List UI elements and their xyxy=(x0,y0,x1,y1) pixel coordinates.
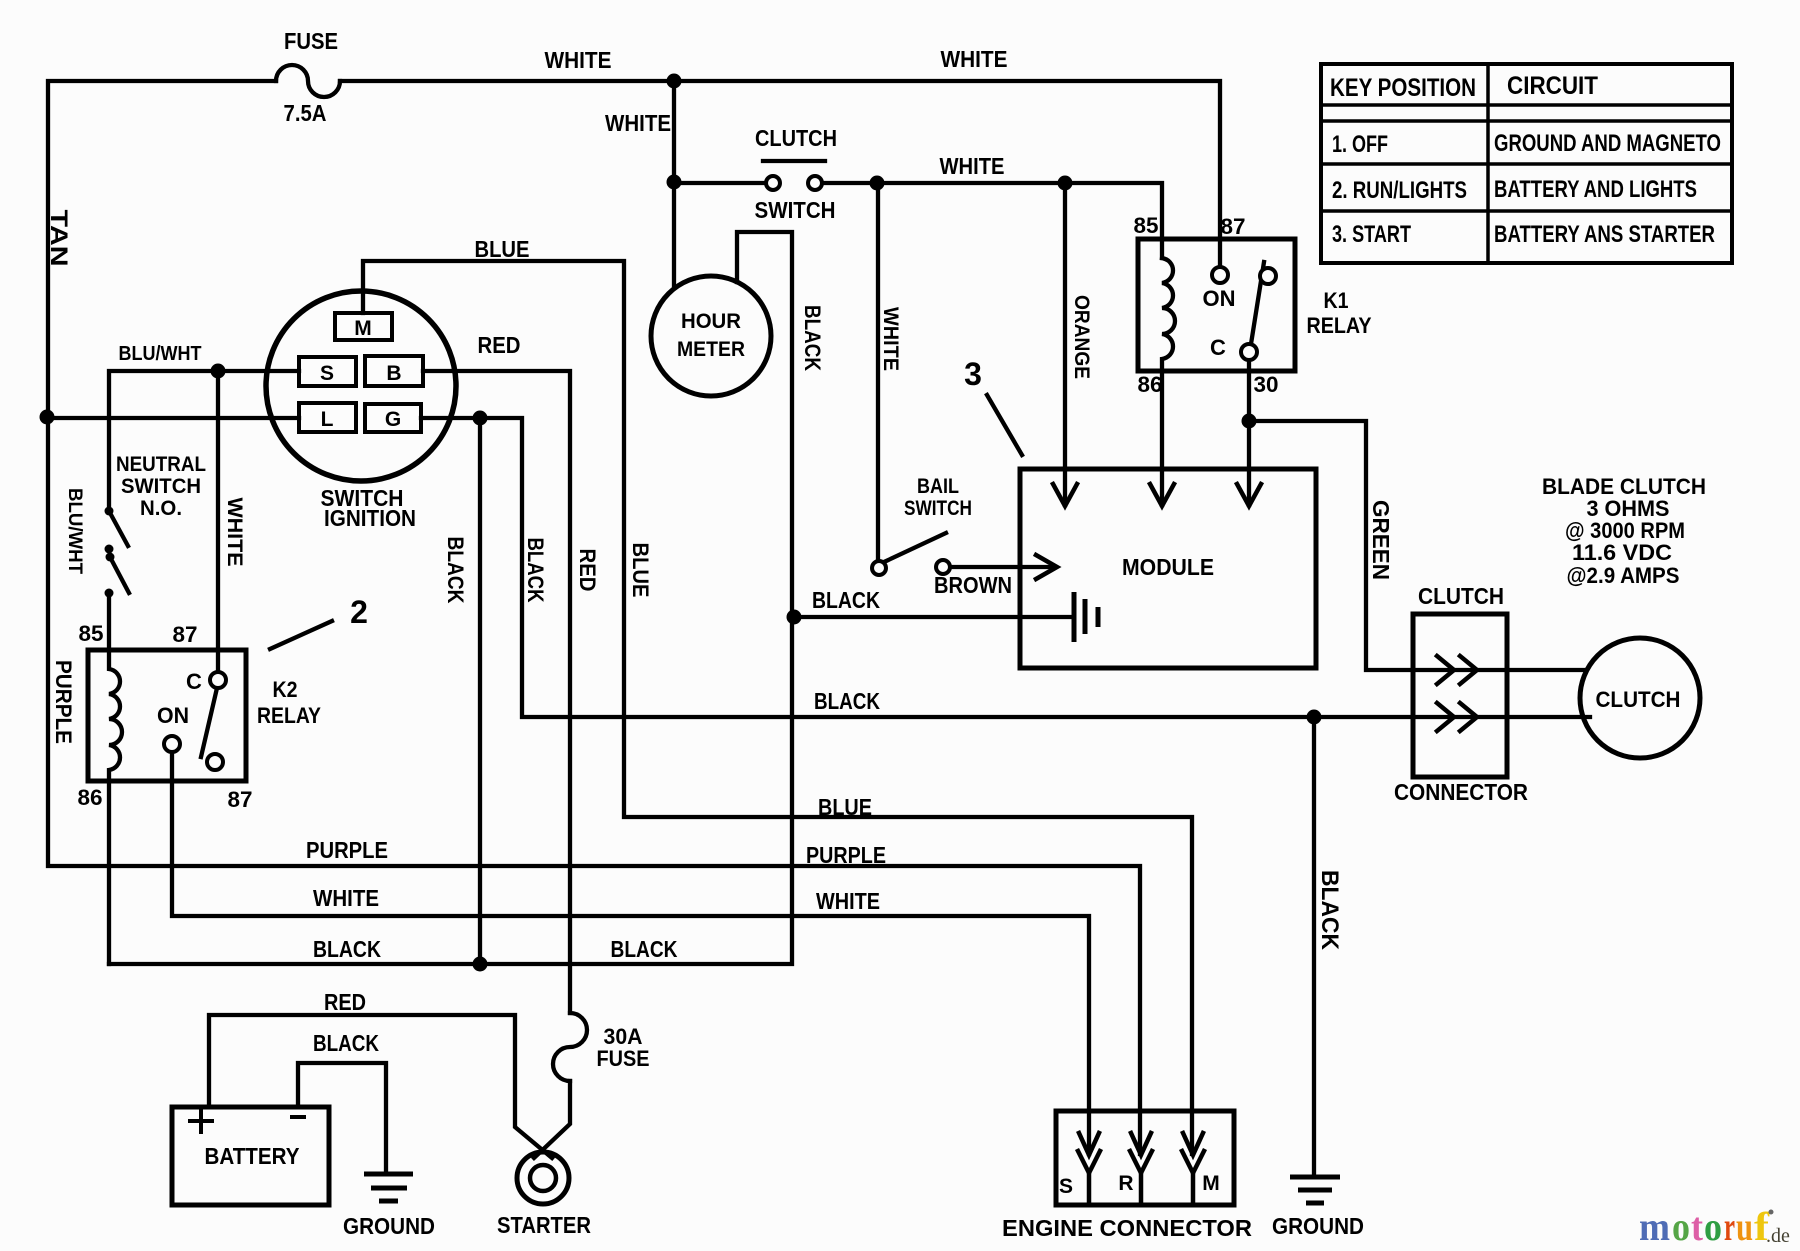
svg-text:WHITE: WHITE xyxy=(940,153,1005,179)
svg-text:NEUTRAL: NEUTRAL xyxy=(116,453,206,476)
svg-text:ENGINE CONNECTOR: ENGINE CONNECTOR xyxy=(1002,1215,1252,1241)
svg-text:o: o xyxy=(1704,1204,1722,1249)
svg-text:GREEN: GREEN xyxy=(1368,500,1394,580)
svg-text:.de: .de xyxy=(1766,1225,1790,1247)
svg-text:@2.9 AMPS: @2.9 AMPS xyxy=(1567,563,1680,588)
svg-text:85: 85 xyxy=(79,621,104,646)
svg-text:BLU/WHT: BLU/WHT xyxy=(64,488,85,574)
svg-text:85: 85 xyxy=(1134,213,1159,238)
svg-text:CIRCUIT: CIRCUIT xyxy=(1507,72,1598,100)
svg-text:BLACK: BLACK xyxy=(814,688,880,714)
svg-text:BATTERY AND LIGHTS: BATTERY AND LIGHTS xyxy=(1494,176,1697,203)
svg-text:GROUND: GROUND xyxy=(1272,1213,1364,1239)
svg-text:RELAY: RELAY xyxy=(1307,313,1372,338)
svg-text:RED: RED xyxy=(324,989,366,1015)
svg-text:1. OFF: 1. OFF xyxy=(1332,131,1388,158)
svg-text:BLACK: BLACK xyxy=(800,305,825,371)
svg-text:CLUTCH: CLUTCH xyxy=(755,125,837,151)
svg-text:WHITE: WHITE xyxy=(545,47,612,73)
svg-text:BAIL: BAIL xyxy=(917,475,959,498)
svg-text:BLUE: BLUE xyxy=(628,543,653,598)
svg-text:BLACK: BLACK xyxy=(611,936,678,962)
svg-text:7.5A: 7.5A xyxy=(284,100,327,126)
svg-text:CLUTCH: CLUTCH xyxy=(1596,687,1681,712)
svg-text:BLACK: BLACK xyxy=(313,936,381,962)
svg-text:WHITE: WHITE xyxy=(879,307,902,371)
svg-text:BATTERY: BATTERY xyxy=(205,1143,300,1169)
svg-text:IGNITION: IGNITION xyxy=(324,505,416,531)
svg-text:FUSE: FUSE xyxy=(597,1046,650,1071)
svg-text:C: C xyxy=(1210,335,1226,360)
svg-text:BLUE: BLUE xyxy=(475,236,530,262)
svg-text:ON: ON xyxy=(1203,286,1236,311)
svg-text:86: 86 xyxy=(78,785,103,810)
svg-text:MODULE: MODULE xyxy=(1122,554,1214,580)
svg-text:ON: ON xyxy=(157,703,189,728)
svg-text:L: L xyxy=(321,408,334,431)
svg-text:BATTERY ANS STARTER: BATTERY ANS STARTER xyxy=(1494,221,1715,248)
svg-text:2: 2 xyxy=(350,594,368,630)
svg-text:S: S xyxy=(320,362,334,385)
svg-text:SWITCH: SWITCH xyxy=(904,497,972,520)
svg-text:87: 87 xyxy=(173,622,198,647)
svg-text:FUSE: FUSE xyxy=(284,28,338,54)
svg-text:METER: METER xyxy=(677,338,745,361)
svg-text:87: 87 xyxy=(228,787,253,812)
svg-text:BLACK: BLACK xyxy=(313,1030,379,1056)
svg-text:3. START: 3. START xyxy=(1332,221,1411,248)
svg-text:r: r xyxy=(1724,1204,1735,1249)
svg-text:BLU/WHT: BLU/WHT xyxy=(119,343,202,365)
svg-text:RED: RED xyxy=(478,332,521,358)
svg-text:R: R xyxy=(1118,1172,1133,1195)
svg-text:K1: K1 xyxy=(1324,288,1349,313)
svg-text:WHITE: WHITE xyxy=(816,888,880,914)
svg-text:m: m xyxy=(1639,1204,1670,1249)
svg-text:WHITE: WHITE xyxy=(313,885,379,911)
svg-text:M: M xyxy=(354,317,372,340)
svg-text:RELAY: RELAY xyxy=(257,703,321,728)
svg-text:3: 3 xyxy=(964,356,982,392)
svg-text:CONNECTOR: CONNECTOR xyxy=(1394,779,1528,805)
svg-text:GROUND AND MAGNETO: GROUND AND MAGNETO xyxy=(1494,130,1721,157)
svg-text:BLACK: BLACK xyxy=(443,537,468,604)
svg-text:TAN: TAN xyxy=(45,210,72,267)
svg-text:WHITE: WHITE xyxy=(605,110,671,136)
svg-text:KEY POSITION: KEY POSITION xyxy=(1330,74,1476,102)
svg-text:BLUE: BLUE xyxy=(818,794,872,820)
svg-text:SWITCH: SWITCH xyxy=(755,197,836,223)
svg-text:87: 87 xyxy=(1221,214,1246,239)
svg-text:GROUND: GROUND xyxy=(343,1213,435,1239)
svg-text:o: o xyxy=(1672,1204,1690,1249)
svg-text:86: 86 xyxy=(1138,372,1163,397)
svg-text:S: S xyxy=(1059,1175,1073,1198)
svg-text:C: C xyxy=(186,669,202,694)
svg-text:BLACK: BLACK xyxy=(812,587,880,613)
svg-text:PURPLE: PURPLE xyxy=(51,660,76,744)
svg-text:CLUTCH: CLUTCH xyxy=(1418,583,1504,609)
svg-text:BLACK: BLACK xyxy=(1316,870,1343,951)
svg-text:RED: RED xyxy=(575,549,600,592)
svg-text:SWITCH: SWITCH xyxy=(121,475,201,498)
svg-text:STARTER: STARTER xyxy=(497,1212,591,1238)
svg-text:t: t xyxy=(1691,1204,1704,1249)
svg-text:K2: K2 xyxy=(273,677,298,702)
svg-text:2. RUN/LIGHTS: 2. RUN/LIGHTS xyxy=(1332,177,1467,204)
svg-text:WHITE: WHITE xyxy=(223,498,246,567)
svg-text:11.6 VDC: 11.6 VDC xyxy=(1572,540,1672,565)
svg-text:ORANGE: ORANGE xyxy=(1070,295,1093,379)
svg-text:G: G xyxy=(385,408,401,431)
svg-text:PURPLE: PURPLE xyxy=(806,842,886,868)
svg-text:u: u xyxy=(1736,1204,1753,1249)
svg-text:N.O.: N.O. xyxy=(140,497,182,520)
svg-text:WHITE: WHITE xyxy=(941,46,1008,72)
svg-text:BLACK: BLACK xyxy=(523,538,548,603)
svg-text:PURPLE: PURPLE xyxy=(306,837,388,863)
svg-text:B: B xyxy=(386,362,401,385)
svg-text:30: 30 xyxy=(1254,372,1279,397)
svg-text:M: M xyxy=(1202,1172,1220,1195)
svg-text:BROWN: BROWN xyxy=(934,572,1012,598)
svg-text:HOUR: HOUR xyxy=(681,310,741,333)
